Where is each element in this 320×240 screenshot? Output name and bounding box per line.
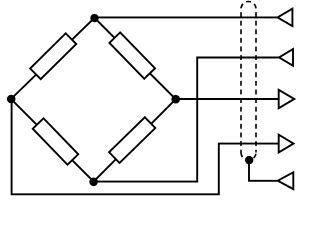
- resistor R3 (bottom-left bridge arm): [33, 118, 79, 164]
- wire bottom node to terminal 2 (via vertical riser): [94, 58, 279, 182]
- wire right node to terminal 3 (signal): [176, 98, 279, 100]
- wire top node to left node (bridge arm): [11, 18, 95, 99]
- wire top node to right node (bridge arm): [95, 18, 176, 99]
- terminal 2 (left-pointing open triangle): [279, 49, 293, 66]
- wire top node to terminal 1 (excitation +): [95, 16, 278, 18]
- wire shield node to terminal 5 (shield drain): [249, 160, 278, 181]
- terminal 1 (left-pointing open triangle): [278, 9, 293, 26]
- resistor R2 (top-right bridge arm): [109, 32, 155, 78]
- resistor R4 (bottom-right bridge arm): [109, 117, 155, 163]
- node left (bridge signal junction): [7, 95, 16, 104]
- wire bottom node to right node (bridge arm): [94, 99, 176, 181]
- node shield connection: [245, 156, 253, 164]
- terminal 5 (left-pointing open triangle): [278, 172, 294, 189]
- cable shield (dashed capsule): [241, 2, 256, 161]
- resistor R1 (top-left bridge arm): [30, 33, 76, 79]
- terminal 4 (right-pointing open triangle): [279, 135, 294, 153]
- node bottom (bridge excitation junction): [89, 178, 98, 187]
- terminal 3 (right-pointing open triangle): [279, 90, 295, 108]
- wire left node to bottom node (bridge arm): [11, 99, 94, 182]
- wire left node to terminal 4 (around bottom): [12, 99, 279, 194]
- node top (bridge excitation junction): [90, 14, 98, 22]
- node right (bridge signal junction): [171, 95, 180, 104]
